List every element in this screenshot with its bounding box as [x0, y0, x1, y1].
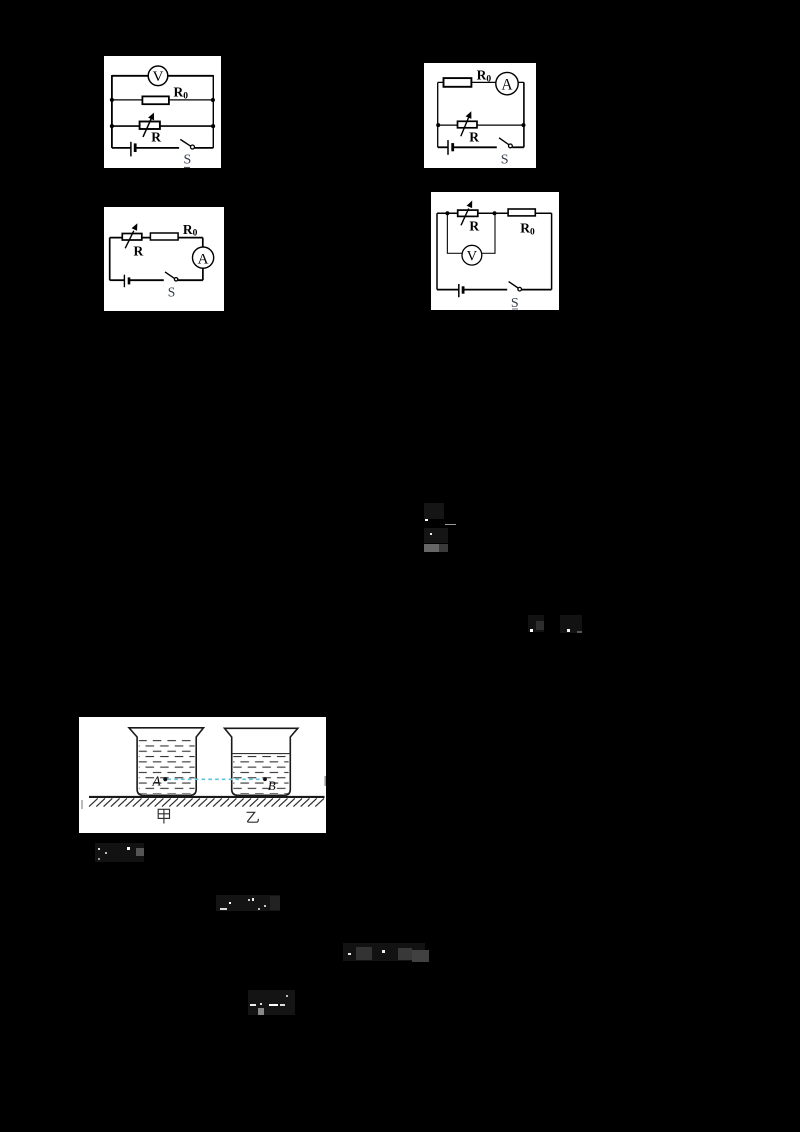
wire bottom right segment — [177, 279, 202, 281]
wire voltmeter branch left — [448, 213, 463, 253]
svg-text:A: A — [152, 774, 162, 789]
wire left vertical — [108, 237, 110, 280]
ground hatching — [89, 798, 324, 806]
switch S blade — [509, 281, 518, 287]
beaker yi outline — [225, 728, 298, 795]
wire bottom left segment — [109, 279, 124, 281]
switch S blade — [499, 138, 509, 145]
rheostat R arrow head — [467, 200, 473, 208]
wire top loop — [112, 74, 213, 76]
svg-text:R: R — [151, 129, 161, 144]
dashed level line A to B — [168, 778, 264, 780]
svg-text:S: S — [183, 152, 191, 167]
svg-text:R: R — [470, 218, 480, 233]
wire R branch row — [437, 124, 523, 126]
ammeter U1 circle — [495, 73, 517, 95]
rheostat R body — [458, 210, 478, 216]
battery cell short plate — [462, 286, 465, 293]
circuit figure 2 white panel — [424, 63, 537, 167]
wire right vertical — [523, 83, 525, 148]
node junction right R row — [521, 123, 525, 127]
ground line — [89, 796, 325, 798]
ammeter U1 circle — [192, 246, 213, 267]
wire ammeter top lead — [201, 237, 203, 247]
faint formula fragment p jia — [95, 843, 144, 862]
svg-text:A: A — [197, 251, 208, 267]
svg-text:R0: R0 — [520, 221, 535, 238]
svg-text:R: R — [469, 130, 479, 145]
wire bottom middle segment — [128, 279, 163, 281]
node junction left R row — [110, 123, 114, 127]
voltmeter U1 circle — [462, 245, 482, 265]
faint formula fragment line 3 — [343, 943, 425, 961]
battery cell short plate — [451, 143, 454, 151]
circuit figure 4 white panel — [431, 192, 559, 310]
resistor R0 body — [150, 232, 178, 239]
rheostat R arrow head — [465, 112, 471, 120]
wire bottom middle segment — [463, 288, 507, 290]
svg-text:S: S — [511, 296, 519, 310]
label jia glyph — [158, 809, 169, 823]
wire right vertical — [212, 75, 214, 148]
label yi glyph — [247, 812, 258, 822]
voltmeter U1 circle — [148, 66, 168, 86]
rheostat R arrow shaft — [143, 117, 152, 136]
svg-text:B: B — [268, 778, 276, 793]
switch S contact circle — [190, 144, 194, 148]
beakers figure white panel — [79, 717, 326, 833]
rheostat R arrow shaft — [460, 118, 468, 137]
node junction left R row — [436, 123, 440, 127]
wire bottom left segment — [437, 147, 447, 149]
svg-text:R0: R0 — [182, 221, 197, 238]
node junction left R0 row — [110, 97, 114, 101]
battery cell short plate — [134, 143, 137, 152]
switch S blade — [165, 271, 174, 277]
svg-text:S: S — [167, 284, 175, 299]
stray mark below S — [184, 166, 190, 167]
beaker yi liquid surface line — [232, 753, 291, 755]
circuit figure 1 white panel — [104, 56, 221, 168]
wire top row — [437, 212, 552, 214]
stray gray tick left edge — [81, 800, 83, 809]
wire bottom middle segment — [135, 146, 179, 148]
faint formula fragment line 2 — [216, 895, 280, 911]
beaker jia outline — [129, 728, 204, 796]
resistor R0 body — [142, 96, 168, 104]
beaker jia liquid dashes — [139, 739, 195, 794]
svg-text:A: A — [501, 77, 513, 94]
faint formula fragment rho jia — [528, 615, 544, 632]
stray gray tick right edge — [324, 776, 326, 786]
svg-text:V: V — [467, 248, 478, 264]
wire R0 branch row — [112, 98, 213, 100]
faint formula fragment fraction block — [424, 503, 444, 519]
switch S contact circle — [518, 287, 522, 291]
wire bottom right segment — [522, 288, 552, 290]
svg-text:S: S — [500, 153, 508, 168]
rheostat R arrow shaft — [461, 208, 469, 225]
switch S contact circle — [174, 277, 177, 280]
rheostat R body — [457, 122, 476, 128]
wire bottom right segment — [512, 147, 524, 149]
rheostat R arrow shaft — [125, 230, 134, 247]
faint formula fragment rho yi — [560, 615, 582, 633]
stray mark below S — [512, 308, 518, 309]
wire left vertical — [111, 75, 113, 148]
wire ammeter bottom lead — [201, 267, 203, 279]
wire bottom right segment — [194, 146, 213, 148]
node junction right R row — [211, 123, 215, 127]
point B dot — [263, 777, 267, 781]
wire top row — [437, 82, 523, 84]
rheostat R arrow head — [131, 223, 137, 231]
wire R branch row — [112, 125, 213, 127]
battery cell long plate — [123, 274, 125, 286]
switch S contact circle — [508, 144, 512, 148]
node junction left — [446, 211, 450, 215]
battery cell long plate — [447, 140, 449, 155]
svg-text:R: R — [133, 243, 143, 258]
wire bottom left segment — [437, 288, 459, 290]
svg-text:V: V — [152, 69, 163, 85]
rheostat R arrow head — [148, 112, 154, 120]
battery cell long plate — [458, 284, 460, 297]
beaker yi liquid dashes — [233, 756, 288, 794]
faint formula fragment line 4 — [248, 990, 295, 1015]
wire bottom middle segment — [452, 147, 496, 149]
wire bottom left segment — [112, 146, 131, 148]
wire left vertical — [436, 83, 438, 148]
resistor R0 body — [508, 209, 535, 216]
rheostat R body — [139, 121, 159, 128]
rheostat R body — [122, 233, 141, 239]
wire voltmeter branch right — [482, 213, 495, 253]
resistor R0 body — [443, 78, 471, 87]
wire right vertical — [551, 213, 553, 289]
wire top row — [109, 236, 202, 238]
svg-text:R0: R0 — [173, 84, 188, 101]
wire left vertical — [436, 213, 438, 289]
circuit figure 3 white panel — [104, 207, 224, 312]
point A dot — [163, 777, 167, 781]
svg-text:R0: R0 — [476, 68, 491, 85]
battery cell short plate — [127, 277, 130, 284]
node junction right — [493, 211, 497, 215]
switch S blade — [180, 139, 191, 146]
node junction right R0 row — [211, 97, 215, 101]
battery cell long plate — [130, 141, 132, 156]
